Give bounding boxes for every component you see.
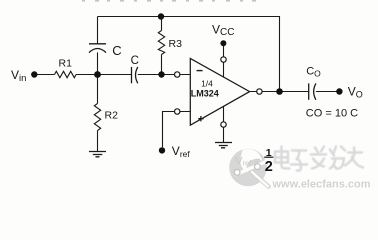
node R3 junction dot <box>158 71 164 77</box>
wire node A up to parallel C <box>97 52 99 74</box>
ground left <box>89 152 106 157</box>
svg-text:2: 2 <box>265 159 273 175</box>
node VCC dot <box>220 40 226 46</box>
node VO dot <box>336 88 342 94</box>
wire R1 to node A <box>76 74 131 76</box>
wire node A down to R2 <box>97 75 99 104</box>
resistor R3 <box>158 31 164 55</box>
capacitor C series right curved plate <box>136 67 138 83</box>
wire output <box>250 91 309 93</box>
wire Vin lead <box>34 74 54 76</box>
wire series C to R3 node <box>138 74 191 76</box>
wire top feedback <box>98 17 280 92</box>
node feedback-top junction <box>158 13 164 19</box>
ground op-amp <box>215 143 232 148</box>
pin circle op-amp ground <box>221 122 226 127</box>
faint cropped text top edge <box>82 0 256 2</box>
wire CO to VO <box>316 91 340 93</box>
capacitor C series left plate <box>131 67 133 83</box>
svg-text:www.elecfans.com: www.elecfans.com <box>272 179 371 191</box>
wire op-amp ground pin <box>223 106 225 142</box>
annotation fraction 1/2 <box>264 147 273 175</box>
capacitor CO left plate <box>308 83 310 99</box>
pin circle output <box>257 89 262 94</box>
capacitor CO curved plate <box>314 83 316 99</box>
svg-text:R2: R2 <box>105 110 119 122</box>
svg-text:C: C <box>112 43 121 58</box>
op-amp U1 triangle <box>190 58 249 125</box>
resistor R1 <box>55 71 77 77</box>
pin circle non-inverting <box>175 109 180 114</box>
pin circle VCC <box>221 57 226 62</box>
svg-text:C: C <box>131 55 139 67</box>
watermark logo circle <box>229 149 268 187</box>
svg-text:R3: R3 <box>169 38 183 50</box>
op-amp plus sign <box>198 116 203 121</box>
wire R3 top <box>161 17 163 31</box>
resistor R2 <box>94 104 100 131</box>
svg-text:CO = 10 C: CO = 10 C <box>306 107 358 119</box>
svg-text:1/4: 1/4 <box>201 78 213 88</box>
node A junction dot <box>94 71 101 78</box>
wire R3 bottom to node <box>161 55 163 75</box>
wire non-inverting to Vref <box>163 112 191 148</box>
op-amp minus sign <box>197 70 203 72</box>
node output dot <box>276 88 283 95</box>
watermark url www.elecfans.com <box>272 179 372 192</box>
wire VCC pin <box>223 43 225 77</box>
capacitor C parallel curved plate <box>89 49 106 53</box>
wire R2 to ground <box>97 131 99 152</box>
node Vin dot <box>31 71 37 77</box>
wire parallel C up to top wire <box>97 17 99 44</box>
capacitor C parallel straight plate <box>89 43 106 45</box>
watermark chinese characters <box>275 147 364 172</box>
node Vref dot <box>159 147 165 153</box>
svg-text:R1: R1 <box>59 57 73 69</box>
svg-text:LM324: LM324 <box>191 88 219 98</box>
pin circle inverting <box>175 72 180 77</box>
